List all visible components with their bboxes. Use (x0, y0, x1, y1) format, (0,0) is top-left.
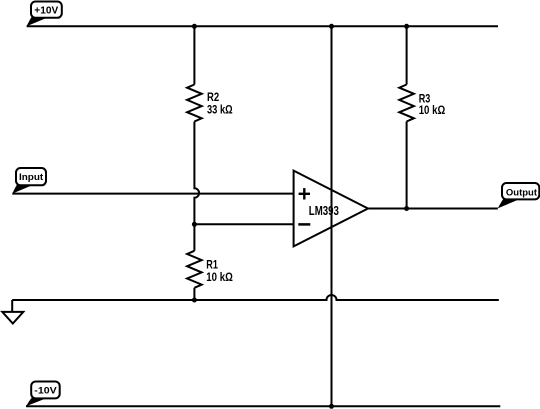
svg-text:Output: Output (506, 187, 538, 198)
label R2 (207, 90, 220, 104)
wire R2 bottom lead hopping over input wire down to inverting node (194, 122, 199, 225)
svg-text:10 kΩ: 10 kΩ (206, 270, 233, 284)
wire Input to op-amp non-inverting input (12, 193, 293, 195)
wire node to R1 top lead (193, 224, 195, 251)
label R2 value 33 kOhm (207, 103, 233, 117)
resistor R3 (399, 85, 414, 122)
junction R2 / +10V rail (192, 24, 197, 29)
svg-text:33 kΩ: 33 kΩ (207, 103, 233, 117)
wire supply line from +10V rail through op-amp to -10V rail (331, 26, 333, 406)
op-amp minus input symbol (298, 223, 310, 226)
wire ground rail hopping over supply line (12, 295, 499, 300)
op-amp plus input symbol (299, 188, 310, 199)
wire -10V rail (26, 405, 500, 407)
label R3 value 10 kOhm (419, 103, 446, 117)
wire inverting node to op-amp inverting input (194, 223, 293, 225)
junction supply line / -10V rail (329, 404, 334, 409)
flag Input (12, 168, 46, 194)
junction R1 / ground rail (192, 298, 197, 303)
wire R2 top lead (193, 26, 195, 84)
wire +10V rail (27, 25, 498, 27)
resistor R1 (187, 251, 202, 288)
ground symbol (2, 312, 23, 324)
flag -10V (26, 382, 60, 407)
junction R3 / output wire (404, 206, 409, 211)
flag +10V (27, 2, 62, 27)
wire R3 top lead (406, 26, 408, 84)
wire R3 bottom lead to output wire (406, 122, 408, 209)
svg-text:10 kΩ: 10 kΩ (419, 103, 446, 117)
junction R3 / +10V rail (404, 24, 409, 29)
label R1 (206, 258, 218, 272)
label op-amp LM393 (309, 204, 339, 218)
svg-text:Input: Input (19, 172, 44, 183)
label R1 value 10 kOhm (206, 270, 233, 284)
op-amp U1 triangle (294, 171, 368, 247)
wire op-amp output to Output flag (368, 208, 498, 210)
resistor R2 (187, 85, 202, 122)
wire ground stub (11, 300, 13, 312)
svg-text:-10V: -10V (34, 386, 57, 397)
label R3 (419, 92, 431, 106)
wire R1 bottom lead to ground rail (193, 288, 195, 300)
svg-text:LM393: LM393 (309, 204, 339, 218)
svg-text:+10V: +10V (34, 6, 58, 17)
junction supply line / +10V rail (329, 24, 334, 29)
junction inverting node (R2/R1 divider) (192, 222, 197, 227)
flag Output (498, 183, 540, 208)
